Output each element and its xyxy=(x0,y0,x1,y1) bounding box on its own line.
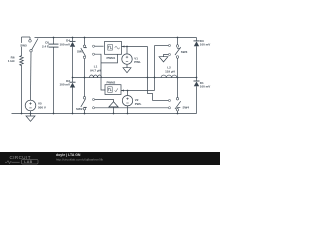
node top C6 xyxy=(53,37,55,39)
node bottom D2 xyxy=(72,113,74,115)
flipped ground at SW2 ctrl+ xyxy=(109,102,118,114)
svg-text:PWM2: PWM2 xyxy=(107,81,116,85)
diode D1 xyxy=(194,78,200,114)
svg-text:100 mV: 100 mV xyxy=(200,85,211,89)
voltage source V2 xyxy=(122,91,132,106)
wire SW5 to V5 xyxy=(30,52,33,100)
switch SW4 control terminals xyxy=(168,99,170,109)
label SW5 xyxy=(20,43,28,47)
switch SW4 xyxy=(175,78,181,114)
wire rail B vertical xyxy=(154,46,156,91)
inductor L1 xyxy=(90,75,102,78)
node mid D3 xyxy=(196,77,198,79)
diode D4 xyxy=(70,38,76,78)
node mid SW3 xyxy=(177,77,179,79)
svg-text:100 mV: 100 mV xyxy=(200,43,211,47)
wire SW1 ctrl+ to PWM1 xyxy=(95,45,104,47)
label L2 value xyxy=(165,66,175,74)
wire mid rail xyxy=(73,77,197,79)
node bottom C6 xyxy=(53,113,55,115)
wire rail B to SW3 ctrl+ xyxy=(155,45,169,47)
node bottom V5 xyxy=(30,113,32,115)
node top SW3 xyxy=(177,37,179,39)
switch SW2 xyxy=(81,78,87,114)
behavioral box PWM1 xyxy=(105,42,122,55)
node top SW1 xyxy=(84,37,86,39)
svg-text:SW2: SW2 xyxy=(76,107,83,111)
node mid rail A xyxy=(147,77,149,79)
wire R6 to bottom xyxy=(21,67,23,114)
switch SW5 xyxy=(22,37,39,55)
svg-text:http://circuitlab.com/c6q8aarb: http://circuitlab.com/c6q8aarbsm9lb xyxy=(56,158,104,162)
node V2 stem xyxy=(127,90,129,92)
node bottom SW4 xyxy=(177,113,179,115)
node mid SW1 xyxy=(84,77,86,79)
label R6 value xyxy=(8,56,15,64)
svg-text:500 V: 500 V xyxy=(38,105,46,109)
wire V2 to bottom xyxy=(127,106,129,114)
svg-text:94.7 μH: 94.7 μH xyxy=(90,69,101,73)
switch SW1 xyxy=(81,38,87,78)
behavioral box PWM2 xyxy=(105,85,121,95)
wire rail A vertical xyxy=(148,47,153,101)
label D4 value xyxy=(59,39,70,47)
svg-text:doyle | LTA GN: doyle | LTA GN xyxy=(56,153,81,157)
label V1 xyxy=(134,57,141,65)
footer watermark bar xyxy=(0,152,220,165)
label D1 value xyxy=(200,81,211,89)
switch SW2 control terminals xyxy=(92,98,94,109)
wire PWM1 output to rail A xyxy=(122,46,148,48)
switch SW3 xyxy=(175,38,181,78)
voltage source V5 xyxy=(25,100,36,111)
svg-text:1 kΩ: 1 kΩ xyxy=(8,59,15,63)
wire SW2 ctrl- to SW4 ctrl- xyxy=(95,107,169,109)
voltage source V1 xyxy=(122,47,132,65)
ground at SW3 ctrl- xyxy=(159,57,168,62)
label V2 xyxy=(135,98,142,106)
wire SW1 ctrl- to PWM2 xyxy=(95,54,106,90)
label C6 value xyxy=(42,40,49,48)
svg-text:LAB: LAB xyxy=(24,160,32,164)
inductor L2 xyxy=(161,75,177,78)
wire PWM2 output to rail B xyxy=(121,90,155,92)
node mid rail B xyxy=(154,77,156,79)
diode D2 xyxy=(70,78,76,114)
svg-text:SW5: SW5 xyxy=(20,43,27,47)
svg-text:SW1: SW1 xyxy=(77,50,84,54)
node bottom R6 xyxy=(21,113,23,115)
wire SW2 ctrl+ to flipped ground xyxy=(95,100,114,102)
pin arrow PWM1 xyxy=(122,46,125,48)
node mid D4 xyxy=(72,77,74,79)
ground below V5 xyxy=(26,114,35,122)
wire bottom rail xyxy=(12,113,197,115)
svg-text:CIRCUIT: CIRCUIT xyxy=(10,155,31,160)
wire rail A to SW4 ctrl+ xyxy=(153,100,169,102)
switch SW3 control terminals xyxy=(168,44,170,55)
label D2 value xyxy=(59,79,70,87)
node top D4 xyxy=(72,37,74,39)
ground below V1 xyxy=(123,64,131,72)
svg-text:2.4 F: 2.4 F xyxy=(42,44,49,48)
svg-text:SW3: SW3 xyxy=(181,50,188,54)
resistor R6 xyxy=(20,55,24,67)
capacitor C6 xyxy=(49,38,59,114)
node bottom V2 xyxy=(127,113,129,115)
wire PWM1 bottom tap xyxy=(101,54,118,63)
pin arrow PWM2 xyxy=(121,90,124,92)
diode D3 xyxy=(194,38,200,78)
svg-text:PWL: PWL xyxy=(135,102,142,106)
node V1 stem xyxy=(126,46,128,48)
svg-text:119 μH: 119 μH xyxy=(165,70,175,74)
label V5 value xyxy=(38,102,46,110)
svg-text:PWL: PWL xyxy=(134,60,141,64)
svg-text:PWM1: PWM1 xyxy=(107,56,116,60)
node bottom SW2 xyxy=(84,113,86,115)
label L1 value xyxy=(90,65,101,73)
wire V5 to bottom xyxy=(30,111,32,114)
node bottom gnd tap xyxy=(113,113,115,115)
wire SW3 ctrl- to ground xyxy=(164,55,169,57)
svg-text:100 mV: 100 mV xyxy=(59,42,70,46)
label D3 value xyxy=(200,39,211,47)
svg-text:SW4: SW4 xyxy=(183,105,190,109)
logo CircuitLab xyxy=(5,155,38,164)
wire top rail xyxy=(35,37,197,39)
svg-text:100 mV: 100 mV xyxy=(59,83,70,87)
switch SW1 control terminals xyxy=(92,45,94,55)
